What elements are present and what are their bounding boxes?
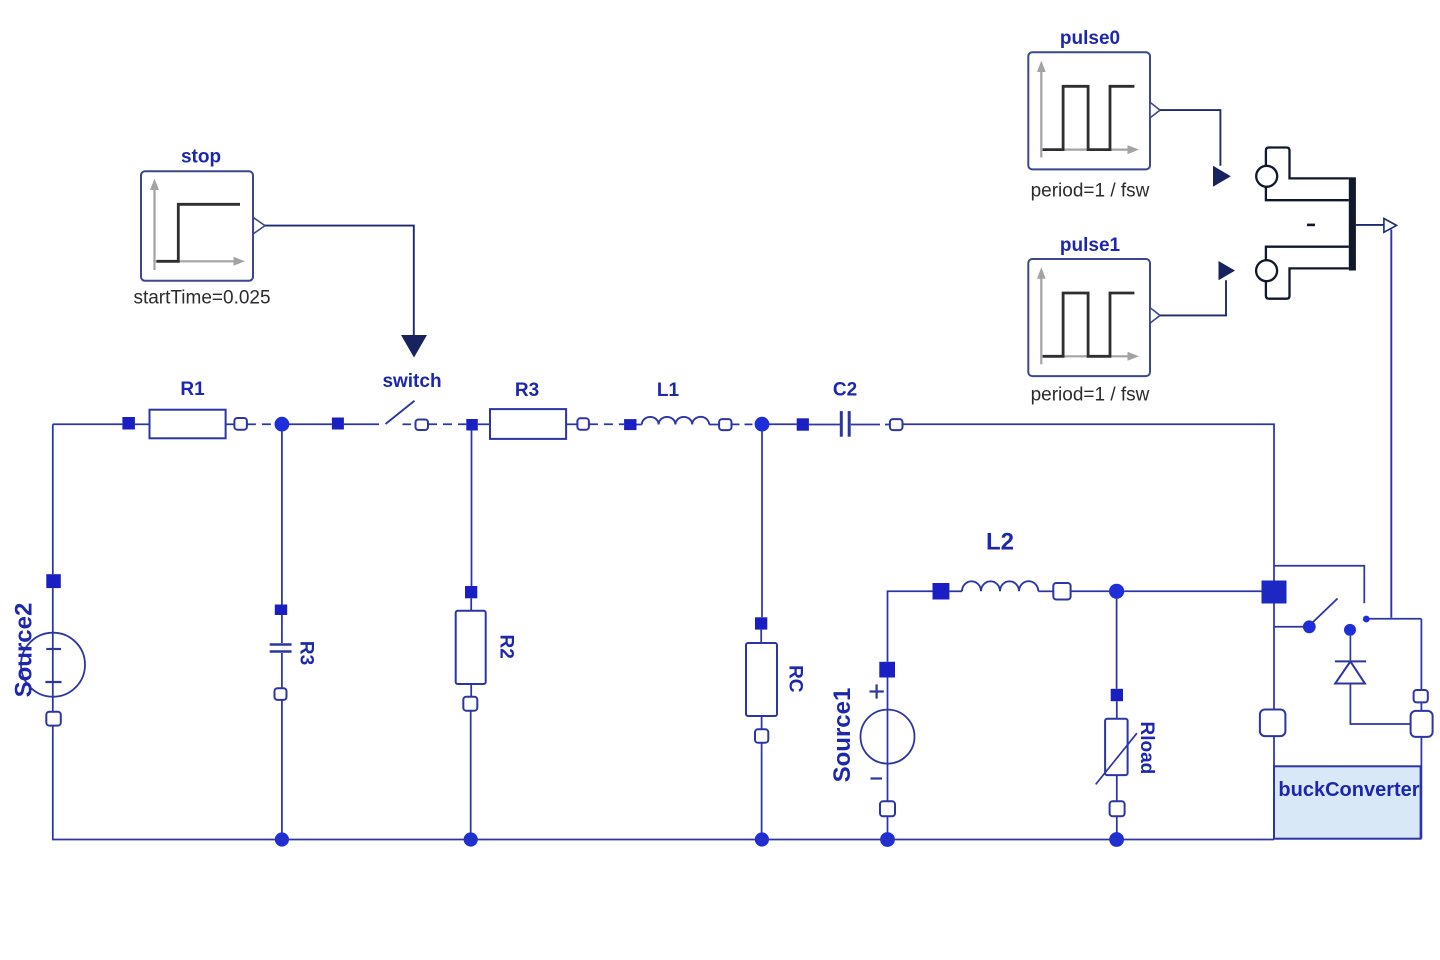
junction node g3 xyxy=(755,832,769,846)
wire bridge output down to buck switch node xyxy=(1390,230,1392,618)
voltage source Source1 xyxy=(861,591,933,833)
svg-text:R2: R2 xyxy=(496,635,517,659)
svg-text:L1: L1 xyxy=(657,380,680,401)
variable resistor Rload xyxy=(1096,599,1137,833)
arrowhead lower gate xyxy=(1219,261,1236,280)
capacitor R3 (vertical branch) xyxy=(270,431,292,833)
diode contact dot xyxy=(1344,624,1356,636)
voltage source Source2 xyxy=(21,424,85,839)
switch (ideal opening switch) xyxy=(332,401,428,430)
wire buck top bracket xyxy=(1274,566,1364,604)
svg-text:period=1 / fsw: period=1 / fsw xyxy=(1031,181,1150,202)
wire n1 to switch.p xyxy=(289,423,332,425)
buck pin p2 (rounded open right) xyxy=(1411,711,1433,737)
svg-text:Rload: Rload xyxy=(1136,722,1157,775)
wire small pin to big pin xyxy=(1420,702,1422,711)
svg-text:pulse1: pulse1 xyxy=(1060,235,1121,256)
wire buck internal vertical xyxy=(1273,604,1275,710)
svg-text:startTime=0.025: startTime=0.025 xyxy=(133,288,270,309)
bus bar xyxy=(1349,177,1356,270)
wire stop.y to switch control xyxy=(265,226,414,335)
buck switch blade xyxy=(1312,599,1338,624)
wire big pin down to box corner xyxy=(1420,737,1422,839)
buck pin small (right) xyxy=(1414,690,1428,702)
svg-text:R1: R1 xyxy=(180,379,205,400)
buck input pin dc_p xyxy=(1262,581,1287,604)
inductor L2 xyxy=(933,581,1110,599)
junction node n2 xyxy=(755,417,770,432)
svg-text:period=1 / fsw: period=1 / fsw xyxy=(1031,385,1150,406)
svg-text:stop: stop xyxy=(181,147,221,168)
stop output port xyxy=(253,218,265,234)
junction node g2 xyxy=(464,832,478,846)
wire switch.n to R3.p (dashed) xyxy=(428,423,466,425)
wire ground rail xyxy=(52,839,1274,841)
svg-text:L2: L2 xyxy=(986,529,1014,556)
arrowhead upper gate xyxy=(1213,166,1231,187)
wire n3 to buck input pin xyxy=(1124,590,1261,592)
svg-text:pulse0: pulse0 xyxy=(1060,28,1120,49)
capacitor C2 xyxy=(797,411,903,437)
arrowhead at switch control xyxy=(401,335,427,358)
resistor R1 xyxy=(122,410,246,439)
junction node n1 xyxy=(275,417,290,432)
wire C2.n to buck converter input xyxy=(903,424,1275,580)
junction node g4 xyxy=(880,832,895,847)
wire n2 to C2.p xyxy=(769,423,797,425)
wire top rail (left) xyxy=(53,423,123,425)
wire R1.n to node n1 (dashed) xyxy=(247,423,275,425)
wire right rail down xyxy=(1420,619,1422,690)
svg-text:buckConverter: buckConverter xyxy=(1278,779,1419,801)
diode D1 xyxy=(1335,636,1411,724)
resistor RC (vertical) xyxy=(746,431,777,833)
svg-text:Source1: Source1 xyxy=(829,688,856,783)
half-bridge upper switch T1 xyxy=(1256,148,1349,201)
svg-text:switch: switch xyxy=(382,371,441,392)
wire pin p1 to box xyxy=(1273,736,1275,766)
svg-text:R3: R3 xyxy=(515,380,539,401)
pulse1 output port xyxy=(1150,308,1160,324)
wire pulse0.y to upper gate xyxy=(1160,110,1220,166)
svg-text:Source2: Source2 xyxy=(11,603,38,698)
buck switch right contact dot xyxy=(1363,616,1370,623)
svg-text:RC: RC xyxy=(785,665,806,693)
output open arrow xyxy=(1384,219,1397,233)
buckConverter block xyxy=(1274,766,1421,838)
svg-text:C2: C2 xyxy=(833,379,857,400)
resistor R3 xyxy=(466,409,589,439)
pulse0 output port xyxy=(1150,102,1160,118)
junction node g5 xyxy=(1109,832,1124,847)
minus sign xyxy=(1307,224,1315,227)
junction node g1 xyxy=(275,832,289,846)
block pulse1 xyxy=(1028,259,1150,376)
buck switch left contact xyxy=(1274,626,1303,628)
block pulse0 xyxy=(1028,52,1150,169)
resistor R2 (vertical) xyxy=(456,430,486,833)
block stop (step source) xyxy=(141,171,253,280)
wire R3.n to L1.p (dashed) xyxy=(589,423,624,425)
wire right contact to right rail xyxy=(1370,618,1422,620)
wire bar to output arrow xyxy=(1356,224,1384,226)
svg-text:R3: R3 xyxy=(296,641,317,665)
half-bridge lower switch T2 xyxy=(1256,247,1349,299)
junction node n3 xyxy=(1109,584,1124,599)
inductor L1 xyxy=(624,417,731,430)
wire L1.n to node n2 (dashed) xyxy=(732,423,756,425)
buck pin p1 (rounded open) xyxy=(1260,710,1286,737)
wire pulse1.y to lower gate xyxy=(1160,280,1226,315)
